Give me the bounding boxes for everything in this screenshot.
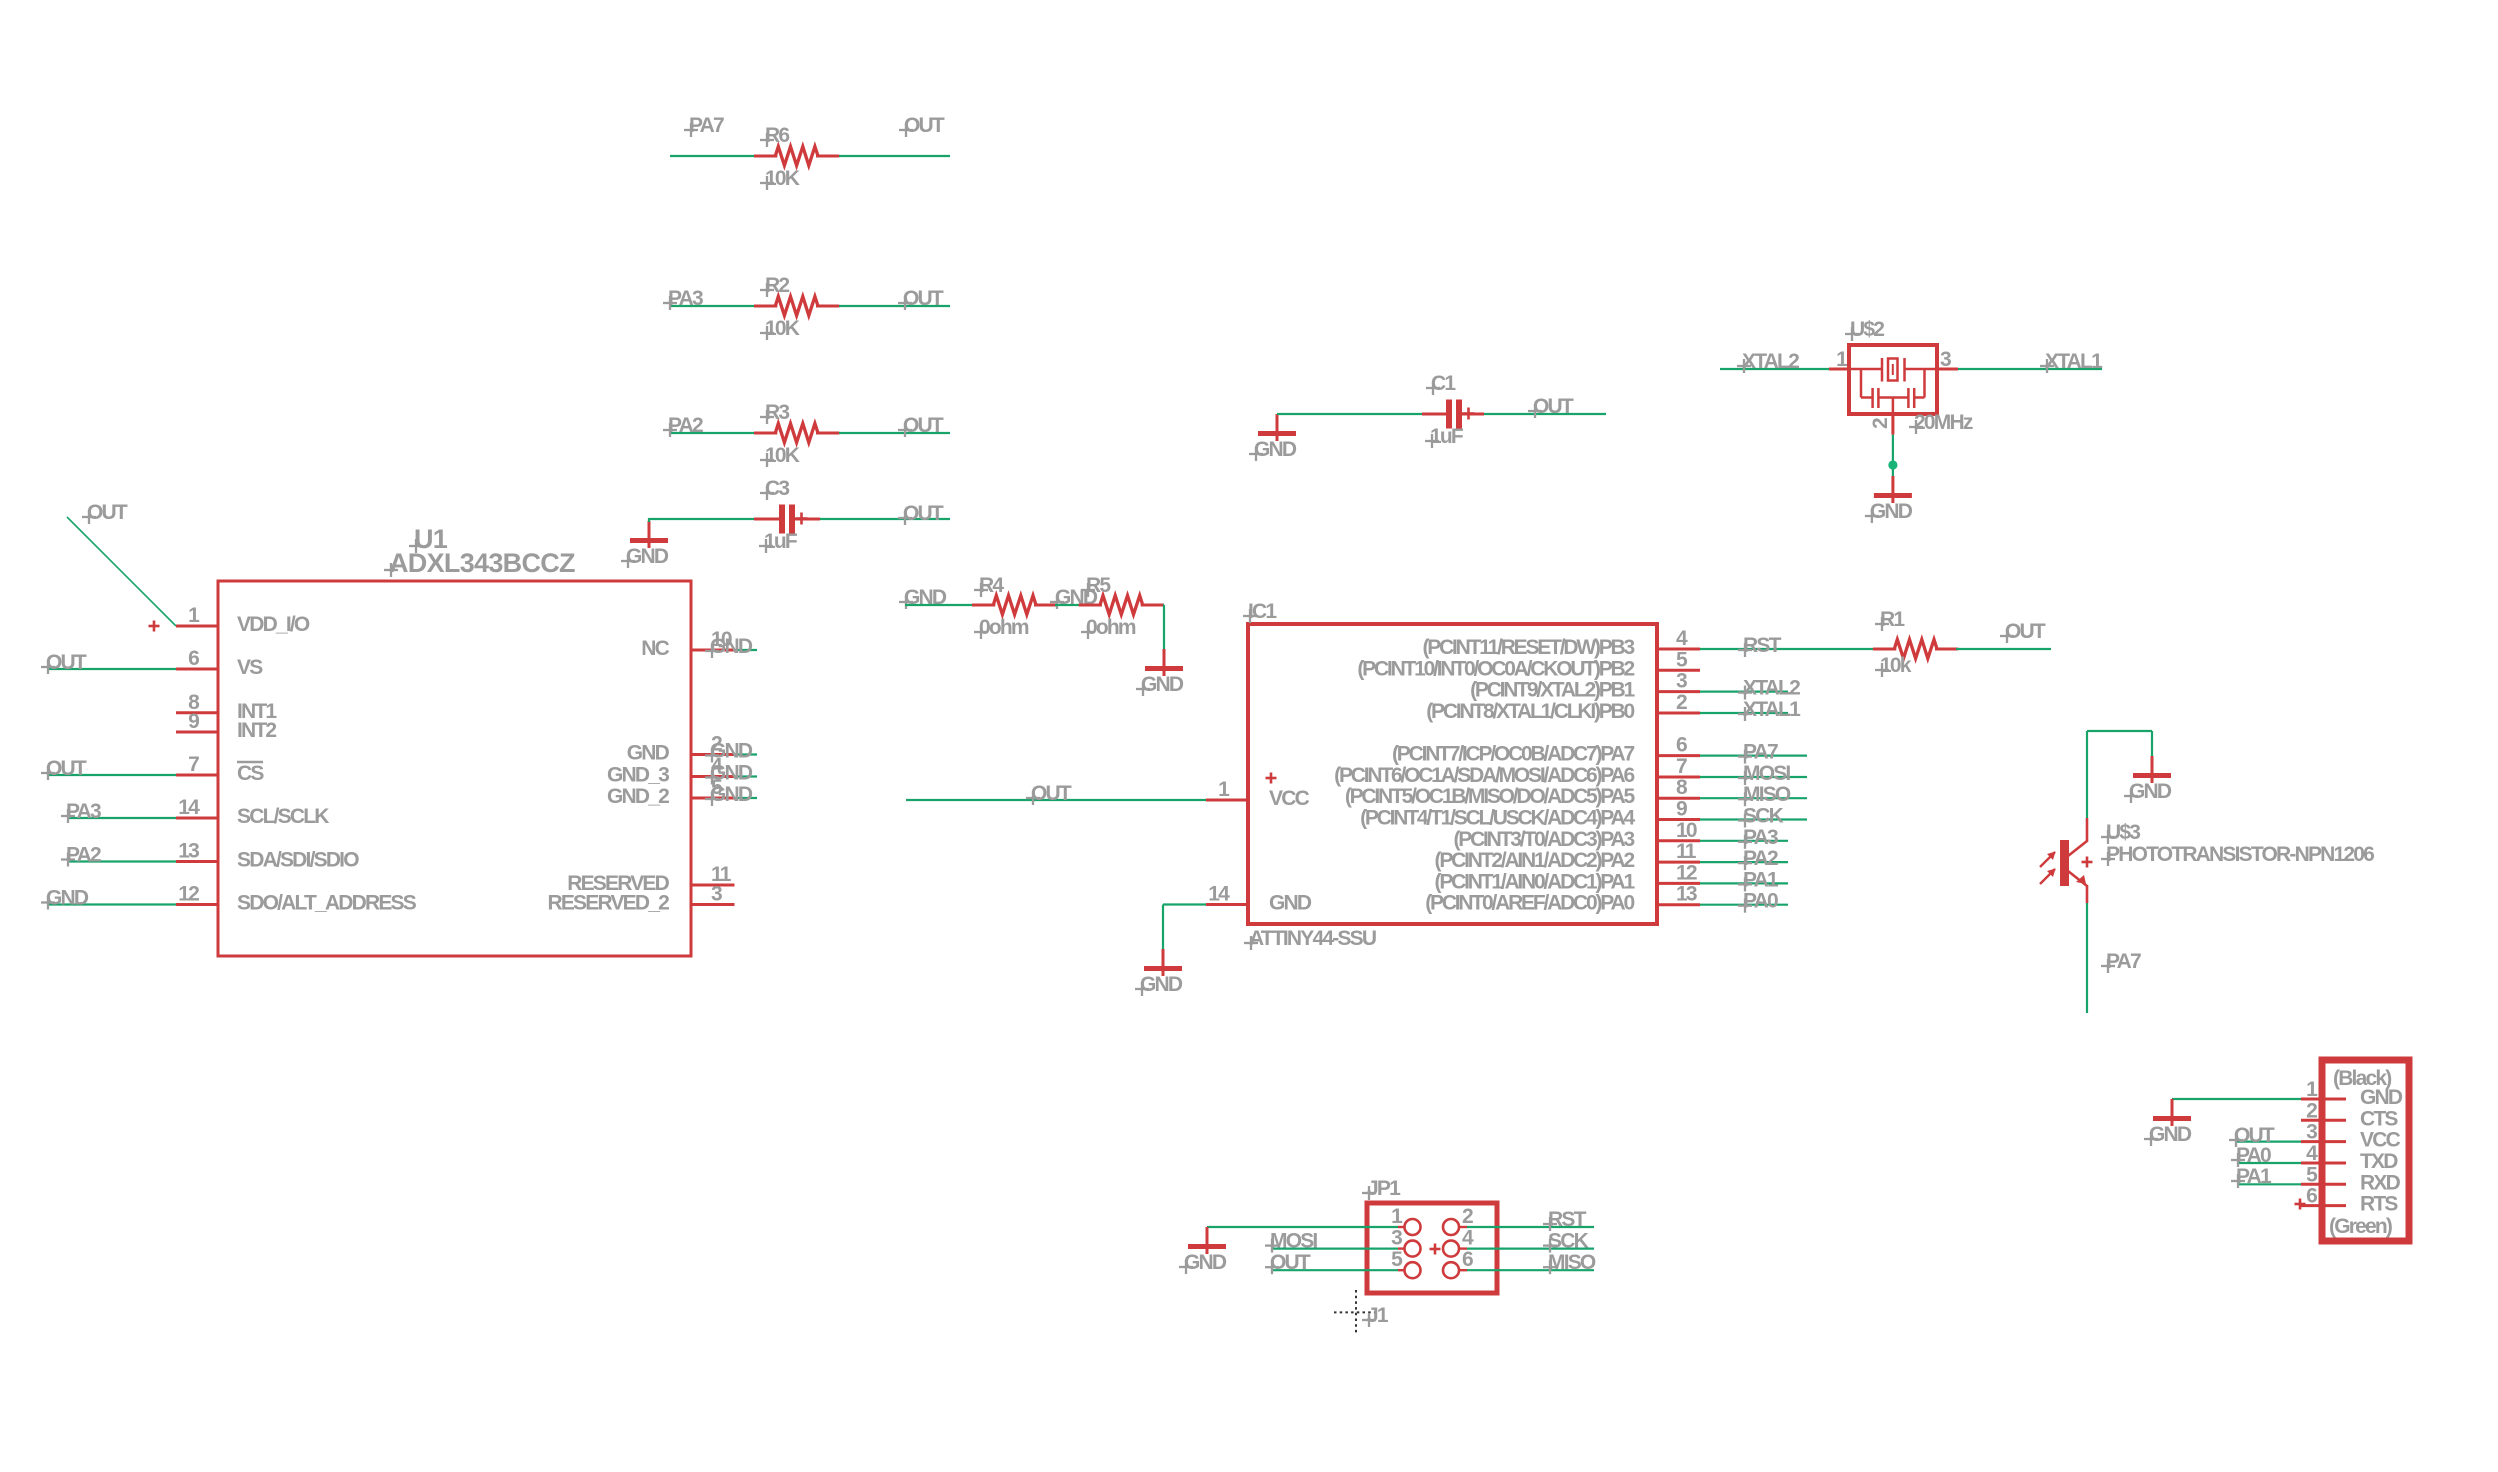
net label MOSI (IC1) (1738, 762, 1790, 785)
svg-text:PA7: PA7 (1743, 741, 1778, 764)
svg-text:RESERVED_2: RESERVED_2 (547, 892, 669, 915)
U1 name (409, 524, 448, 554)
wire C1 to OUT (1462, 413, 1606, 416)
svg-text:GND_3: GND_3 (607, 764, 669, 787)
wire IC1 XTAL1 (1700, 712, 1788, 714)
wire JP1 to MISO (1467, 1269, 1594, 1271)
wire IC1 PA2 (1700, 861, 1788, 863)
svg-text:GND: GND (1269, 892, 1312, 915)
U1 pin 14 SCL/SCLK (176, 796, 329, 828)
net label XTAL1 (IC1) (1738, 698, 1801, 721)
svg-text:R4: R4 (979, 574, 1004, 597)
svg-text:14: 14 (178, 796, 200, 819)
IC1 pin 2 (1426, 691, 1700, 723)
svg-text:MOSI: MOSI (1743, 762, 1790, 785)
net label OUT (VS) (41, 651, 87, 674)
svg-text:10K: 10K (765, 317, 800, 340)
svg-text:VCC: VCC (2360, 1129, 2401, 1152)
wire net PA1 to FTDI RXD (2237, 1183, 2301, 1185)
svg-text:ADXL343BCCZ: ADXL343BCCZ (389, 548, 575, 578)
svg-text:R2: R2 (765, 274, 789, 297)
wire U1 GND_3 to GND label (735, 775, 758, 777)
svg-text:GND: GND (1140, 973, 1183, 996)
svg-text:12: 12 (1676, 861, 1697, 884)
net label MISO (JP1) (1543, 1251, 1596, 1274)
svg-text:MOSI: MOSI (1270, 1230, 1317, 1253)
JP1 pin 5 (1391, 1248, 1420, 1278)
phototransistor U$3 (2040, 818, 2087, 903)
IC1 origin cross (1266, 773, 1277, 784)
IC U1 body (218, 581, 691, 956)
net label GND (U1 NC) (705, 635, 753, 658)
net label PA7 (684, 114, 724, 137)
svg-text:GND: GND (627, 742, 670, 765)
net label MOSI (JP1) (1265, 1230, 1317, 1253)
net label OUT (R3 row) (898, 414, 944, 437)
wire net PA3 to U1 SCL (69, 817, 176, 819)
svg-text:1uF: 1uF (764, 530, 798, 553)
FTDI pin 2 CTS (2301, 1099, 2398, 1130)
svg-text:20MHz: 20MHz (1914, 411, 1973, 434)
svg-text:6: 6 (1676, 734, 1687, 757)
wire C3 to OUT (795, 518, 950, 521)
wire U1 GND_2 to GND label (735, 797, 758, 799)
connector JP1 body (1367, 1203, 1497, 1293)
svg-text:R6: R6 (765, 124, 789, 147)
FTDI label (Black) (2333, 1067, 2391, 1090)
U1 pin 13 SDA/SDI/SDIO (176, 840, 359, 872)
IC1 pin 8 (1345, 776, 1700, 808)
JP1 pin 3 (1391, 1227, 1420, 1257)
svg-text:OUT: OUT (46, 651, 87, 674)
JP1 pin 4 (1443, 1227, 1474, 1257)
U1 pin 9 INT2 (176, 710, 276, 742)
wire JP1 GND (1207, 1226, 1398, 1228)
svg-text:PA7: PA7 (689, 114, 724, 137)
svg-text:VS: VS (237, 656, 263, 679)
svg-text:OUT: OUT (903, 502, 944, 525)
svg-text:3: 3 (2306, 1121, 2317, 1144)
net label MISO (IC1) (1738, 783, 1791, 806)
svg-text:MISO: MISO (1548, 1251, 1596, 1274)
wire net PA3 to R2 (670, 305, 756, 307)
svg-text:13: 13 (1676, 883, 1697, 906)
wire GND to C3 (649, 518, 756, 522)
svg-text:OUT: OUT (904, 114, 945, 137)
IC1 pin 5 (1357, 648, 1700, 680)
FTDI pin 1 GND (2301, 1078, 2403, 1109)
net label OUT (CS) (41, 757, 87, 780)
wire IC1 PA0 (1700, 904, 1788, 906)
wire net OUT to FTDI VCC (2235, 1140, 2301, 1142)
IC1 pin 6 (1392, 734, 1700, 766)
wire JP1 to SCK (1467, 1247, 1594, 1249)
svg-text:GND: GND (1870, 500, 1913, 523)
svg-text:U$3: U$3 (2106, 821, 2140, 844)
U$2 crystal internals (1851, 358, 1935, 414)
wire IC1 MOSI (1700, 776, 1807, 778)
FTDI pin 4 TXD (2301, 1142, 2398, 1173)
net label PA3 (SCL) (61, 800, 101, 823)
net label PA1 (FTDI RXD) (2231, 1165, 2272, 1188)
U1 pin 4 GND_3 (607, 755, 735, 787)
svg-text:GND: GND (2129, 780, 2172, 803)
U$3 origin cross (2082, 857, 2093, 868)
svg-text:PA1: PA1 (1743, 868, 1779, 891)
svg-text:GND: GND (626, 545, 669, 568)
U$3 value (2101, 843, 2374, 866)
svg-text:(PCINT6/OC1A/SDA/MOSI/ADC6)PA6: (PCINT6/OC1A/SDA/MOSI/ADC6)PA6 (1334, 764, 1634, 787)
svg-text:VCC: VCC (1269, 787, 1310, 810)
JP1 pin 6 (1443, 1248, 1473, 1278)
U$2 pin 3 (1937, 348, 1958, 371)
FTDI pin 3 VCC (2301, 1121, 2401, 1152)
svg-text:2: 2 (2306, 1099, 2317, 1122)
net label RST (JP1) (1543, 1208, 1587, 1231)
net label OUT (VCC) (1026, 782, 1072, 805)
wire IC1 SCK (1700, 818, 1807, 820)
svg-text:PA1: PA1 (2236, 1165, 2272, 1188)
svg-text:GND: GND (2360, 1086, 2403, 1109)
U1 pin 1 VDD_I/O (176, 604, 310, 636)
wire IC1 MISO (1700, 797, 1807, 799)
IC1 value ATTINY44-SSU (1244, 927, 1376, 950)
svg-text:2: 2 (1462, 1205, 1473, 1228)
svg-text:6: 6 (1462, 1248, 1473, 1271)
net label GND (U1 GND_2) (705, 783, 753, 806)
svg-text:9: 9 (188, 710, 199, 733)
IC1 pin 1 VCC (1206, 778, 1310, 810)
net label PA3 (IC1) (1738, 826, 1778, 849)
U$2 value 20MHz (1909, 411, 1973, 434)
wire R5 corner down (1163, 605, 1164, 649)
svg-text:GND: GND (710, 635, 753, 658)
svg-text:0ohm: 0ohm (979, 616, 1029, 639)
svg-text:RXD: RXD (2360, 1171, 2401, 1194)
svg-text:PHOTOTRANSISTOR-NPN1206: PHOTOTRANSISTOR-NPN1206 (2106, 843, 2374, 866)
resistor R2 (754, 274, 839, 340)
wire net XTAL2 to U$2 (1720, 368, 1829, 370)
svg-text:10K: 10K (765, 444, 800, 467)
svg-text:PA3: PA3 (1743, 826, 1778, 849)
net label RST (IC1) (1738, 634, 1782, 657)
svg-text:GND: GND (2149, 1123, 2192, 1146)
svg-text:PA0: PA0 (2236, 1144, 2271, 1167)
net label GND (R4-R5 mid) (1050, 586, 1098, 609)
svg-text:CTS: CTS (2360, 1107, 2398, 1130)
IC1 pin 13 (1425, 883, 1700, 915)
wire net OUT to IC1 VCC (906, 799, 1206, 801)
svg-text:OUT: OUT (87, 501, 128, 524)
wire corner to GND (2087, 731, 2152, 756)
svg-text:PA2: PA2 (1743, 847, 1778, 870)
svg-text:R3: R3 (765, 401, 789, 424)
net label PA2 (663, 414, 703, 437)
resistor R5 (1079, 574, 1164, 639)
svg-text:OUT: OUT (903, 414, 944, 437)
wire U$2 pin2 to GND (1892, 435, 1894, 476)
resistor R4 (972, 574, 1057, 639)
svg-text:C3: C3 (765, 477, 789, 500)
JP1 name (1362, 1177, 1401, 1200)
svg-text:PA3: PA3 (66, 800, 101, 823)
U1 origin cross (149, 621, 160, 632)
FTDI pin 5 RXD (2301, 1163, 2401, 1194)
svg-text:6: 6 (188, 647, 199, 670)
svg-text:(PCINT10/INT0/OC0A/CKOUT)PB2: (PCINT10/INT0/OC0A/CKOUT)PB2 (1357, 657, 1634, 680)
part origin J1 dotted cross (1334, 1290, 1378, 1335)
svg-text:JP1: JP1 (1367, 1177, 1401, 1200)
net label XTAL2 (IC1) (1738, 677, 1800, 700)
resistor R1 (1873, 608, 1958, 677)
U1 pin 12 SDO/ALT_ADDRESS (176, 883, 417, 915)
wire IC1 PA3 (1700, 840, 1788, 842)
svg-text:PA2: PA2 (668, 414, 703, 437)
wire R3 to OUT (839, 432, 950, 434)
svg-text:2: 2 (1676, 691, 1687, 714)
svg-text:GND: GND (1141, 673, 1184, 696)
ground symbol (resonator) (1865, 476, 1913, 523)
resistor R3 (754, 401, 839, 467)
U$2 pin 2 (bottom) (1869, 414, 1893, 435)
JP1 pin 2 (1443, 1205, 1473, 1235)
svg-text:(PCINT5/OC1B/MISO/DO/ADC5)PA5: (PCINT5/OC1B/MISO/DO/ADC5)PA5 (1345, 785, 1636, 808)
net label SCK (JP1) (1543, 1230, 1589, 1253)
svg-text:NC: NC (641, 637, 669, 660)
IC1 pin 12 (1435, 861, 1700, 893)
svg-text:GND_2: GND_2 (607, 785, 669, 808)
net label SCK (IC1) (1738, 805, 1784, 828)
svg-text:(PCINT3/T0/ADC3)PA3: (PCINT3/T0/ADC3)PA3 (1453, 828, 1634, 851)
svg-text:SCK: SCK (1743, 805, 1784, 828)
svg-text:PA2: PA2 (66, 844, 101, 867)
ground symbol (IC1) (1135, 949, 1183, 996)
svg-text:TXD: TXD (2360, 1150, 2398, 1173)
IC1 name (1243, 600, 1277, 623)
U1 pin 7 CS (176, 753, 264, 785)
net label OUT (R1 row) (2000, 620, 2046, 643)
JP1 origin cross (1430, 1244, 1441, 1255)
svg-text:(PCINT1/AIN0/ADC1)PA1: (PCINT1/AIN0/ADC1)PA1 (1435, 870, 1636, 893)
wire IC1 RST (1700, 648, 1873, 650)
svg-text:RTS: RTS (2360, 1193, 2398, 1216)
JP1 pin 1 (1391, 1205, 1420, 1235)
FTDI pin 6 RTS (2301, 1185, 2398, 1216)
svg-text:GND: GND (1184, 1251, 1227, 1274)
IC1 pin 7 (1334, 755, 1700, 787)
wire emitter to PA7 (2086, 903, 2088, 1013)
svg-text:14: 14 (1208, 883, 1230, 906)
U1 pin 8 INT1 (176, 691, 277, 723)
IC1 pin 11 (1435, 840, 1700, 872)
U1 pin 10 NC (641, 628, 734, 660)
net label OUT (R2 row) (898, 287, 944, 310)
net label PA2 (IC1) (1738, 847, 1778, 870)
capacitor C1 (1422, 372, 1475, 448)
IC1 pin 10 (1453, 819, 1700, 851)
ground symbol (phototransistor) (2124, 756, 2172, 803)
svg-text:INT2: INT2 (237, 719, 276, 742)
resistor R6 (754, 124, 839, 190)
svg-text:PA3: PA3 (668, 287, 703, 310)
net label PA0 (FTDI TXD) (2231, 1144, 2271, 1167)
svg-text:(PCINT0/AREF/ADC0)PA0: (PCINT0/AREF/ADC0)PA0 (1425, 892, 1634, 915)
wire JP1 to RST (1467, 1226, 1594, 1228)
FTDI origin cross (2295, 1199, 2306, 1210)
wire IC1 PA1 (1700, 882, 1788, 884)
net label OUT (VDD_I/O) (82, 501, 128, 524)
svg-text:0ohm: 0ohm (1086, 616, 1136, 639)
svg-text:7: 7 (1676, 755, 1687, 778)
svg-text:3: 3 (1391, 1227, 1402, 1250)
wire FTDI GND (2172, 1098, 2301, 1100)
wire IC1 GND down (1163, 905, 1206, 950)
svg-text:CS: CS (237, 762, 264, 785)
wire net GND to U1 SDO (47, 903, 176, 905)
wire collector up to corner (2086, 731, 2088, 818)
junction dot (1888, 460, 1897, 469)
svg-text:3: 3 (711, 883, 722, 906)
svg-text:IC1: IC1 (1248, 600, 1277, 623)
U1 value ADXL343BCCZ (384, 548, 575, 578)
svg-text:6: 6 (2306, 1185, 2317, 1208)
ground symbol (C1) (1249, 414, 1297, 461)
svg-text:(PCINT4/T1/SCL/USCK/ADC4)PA4: (PCINT4/T1/SCL/USCK/ADC4)PA4 (1360, 807, 1635, 830)
wire net PA2 to R3 (670, 432, 756, 434)
svg-text:XTAL1: XTAL1 (1743, 698, 1801, 721)
svg-text:OUT: OUT (1533, 395, 1574, 418)
svg-text:GND: GND (46, 887, 89, 910)
wire R6 to OUT (839, 155, 950, 157)
svg-text:R1: R1 (1880, 608, 1905, 631)
wire U$2 to XTAL1 (1958, 368, 2102, 370)
net label XTAL1 (resonator) (2040, 350, 2103, 373)
svg-text:RST: RST (1743, 634, 1782, 657)
net label OUT (C3 row) (898, 502, 944, 525)
U1 pin 6 VS (176, 647, 263, 679)
wire net MOSI to JP1 (1271, 1247, 1398, 1249)
svg-text:2: 2 (1869, 418, 1892, 429)
net label GND (U1 GND_3) (705, 762, 753, 785)
U1 pin 2 GND (627, 733, 735, 765)
wire net OUT to JP1 (1271, 1269, 1398, 1271)
U$2 name (1845, 318, 1884, 341)
svg-text:MISO: MISO (1743, 783, 1791, 806)
svg-text:SDA/SDI/SDIO: SDA/SDI/SDIO (237, 849, 359, 872)
wire diagonal OUT to U1 pin 1 (67, 517, 176, 626)
connector FTDI body (2322, 1060, 2409, 1241)
svg-text:11: 11 (1676, 840, 1697, 863)
svg-text:C1: C1 (1431, 372, 1456, 395)
IC IC1 body (1248, 624, 1657, 924)
svg-text:10K: 10K (765, 167, 800, 190)
J1 name (1362, 1304, 1389, 1327)
svg-text:1uF: 1uF (1430, 425, 1464, 448)
svg-text:3: 3 (1940, 348, 1951, 371)
net label GND (R4 left) (899, 586, 947, 609)
svg-text:SCL/SCLK: SCL/SCLK (237, 805, 329, 828)
svg-text:(PCINT9/XTAL2)PB1: (PCINT9/XTAL2)PB1 (1470, 679, 1635, 702)
wire U1 GND to GND label (735, 753, 758, 755)
net label GND (U1 GND) (705, 740, 753, 763)
svg-text:13: 13 (178, 840, 199, 863)
svg-text:ATTINY44-SSU: ATTINY44-SSU (1249, 927, 1376, 950)
wire net OUT to U1 VS (47, 668, 176, 670)
wire IC1 XTAL2 (1700, 690, 1788, 692)
svg-text:(PCINT11/RESET/DW)PB3: (PCINT11/RESET/DW)PB3 (1422, 636, 1634, 659)
svg-text:OUT: OUT (1031, 782, 1072, 805)
net label GND (SDO) (41, 887, 89, 910)
svg-text:OUT: OUT (2005, 620, 2046, 643)
svg-text:3: 3 (1676, 670, 1687, 693)
IC1 pin 14 GND (1206, 883, 1312, 915)
net label PA1 (IC1) (1738, 868, 1779, 891)
ground symbol (FTDI) (2144, 1099, 2192, 1146)
IC1 pin 3 (1470, 670, 1700, 702)
svg-text:PA0: PA0 (1743, 890, 1778, 913)
svg-text:XTAL1: XTAL1 (2045, 350, 2103, 373)
U$3 name (2101, 821, 2140, 844)
svg-text:10k: 10k (1880, 654, 1912, 677)
net label OUT (R6 row) (899, 114, 945, 137)
svg-text:J1: J1 (1367, 1304, 1389, 1327)
net label PA0 (IC1) (1738, 890, 1778, 913)
IC1 pin 4 (1422, 627, 1700, 659)
wire R4 to R5 (1055, 604, 1081, 606)
svg-text:(PCINT7/ICP/OC0B/ADC7)PA7: (PCINT7/ICP/OC0B/ADC7)PA7 (1392, 743, 1635, 766)
ground symbol (R5) (1136, 649, 1184, 696)
svg-text:SDO/ALT_ADDRESS: SDO/ALT_ADDRESS (237, 892, 417, 915)
svg-text:RST: RST (1548, 1208, 1587, 1231)
wire GND to R4 (905, 604, 974, 606)
svg-text:OUT: OUT (903, 287, 944, 310)
net label OUT (JP1) (1265, 1251, 1311, 1274)
net label PA2 (SDA) (61, 844, 101, 867)
wire U1 NC to GND label (735, 649, 758, 651)
wire GND to C1 (1277, 413, 1424, 415)
svg-text:U$2: U$2 (1850, 318, 1884, 341)
svg-text:9: 9 (1676, 798, 1687, 821)
svg-text:PA7: PA7 (2106, 950, 2141, 973)
svg-text:OUT: OUT (46, 757, 87, 780)
IC1 pin 9 (1360, 798, 1700, 830)
FTDI label (Green) (2329, 1215, 2392, 1238)
svg-text:XTAL2: XTAL2 (1742, 350, 1799, 373)
wire net PA2 to U1 SDA (69, 860, 176, 862)
svg-text:(PCINT8/XTAL1/CLKI)PB0: (PCINT8/XTAL1/CLKI)PB0 (1426, 700, 1634, 723)
wire net PA0 to FTDI TXD (2237, 1162, 2301, 1164)
wire R2 to OUT (839, 305, 950, 307)
net label XTAL2 (resonator) (1737, 350, 1799, 373)
net label PA7 (IC1) (1738, 741, 1778, 764)
resonator U$2 body (1849, 345, 1937, 414)
U1 pin 5 GND_2 (607, 776, 735, 808)
capacitor C3 (754, 477, 808, 553)
svg-text:XTAL2: XTAL2 (1743, 677, 1800, 700)
wire R1 to OUT (1956, 648, 2051, 650)
wire net PA7 to R6 (670, 155, 756, 157)
U1 pin 11 RESERVED (567, 863, 734, 895)
net label PA3 (663, 287, 703, 310)
ground symbol (C3) (621, 521, 669, 568)
svg-text:OUT: OUT (1270, 1251, 1311, 1274)
net label OUT (FTDI VCC) (2229, 1124, 2275, 1147)
svg-text:VDD_I/O: VDD_I/O (237, 613, 310, 636)
svg-text:GND: GND (710, 783, 753, 806)
svg-text:SCK: SCK (1548, 1230, 1589, 1253)
wire net OUT to U1 CS (47, 774, 176, 776)
svg-text:R5: R5 (1086, 574, 1111, 597)
